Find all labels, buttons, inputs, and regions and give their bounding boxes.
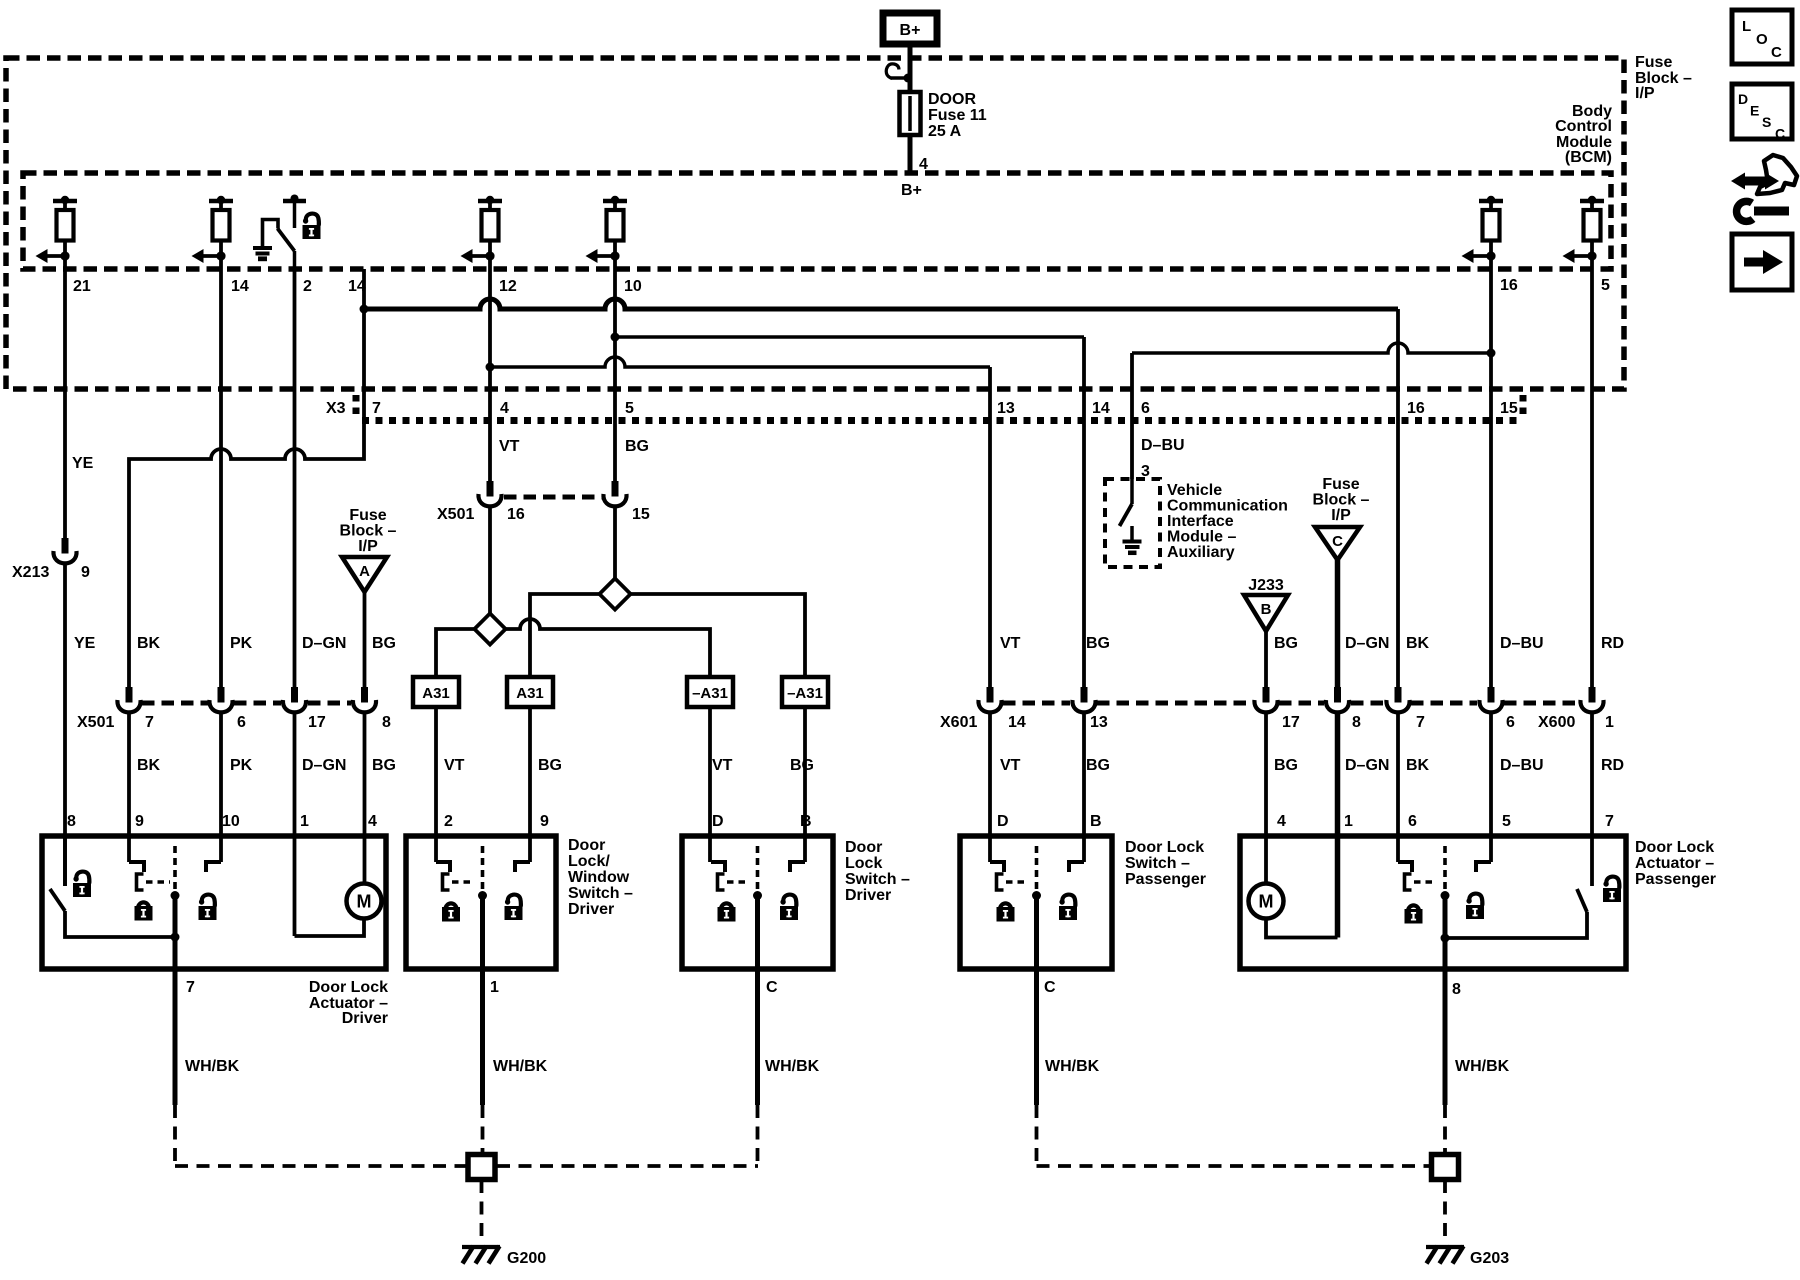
svg-text:BG: BG [790, 757, 814, 774]
svg-text:7: 7 [1605, 813, 1614, 830]
node B+ battery feed box [883, 13, 937, 44]
wire D-GN triangle C to X600 pin 8 (thick feed) [1335, 560, 1341, 687]
svg-text:2: 2 [303, 278, 312, 295]
svg-text:I/P: I/P [1331, 507, 1351, 524]
wire WH/BK window switch pin 1 [480, 973, 485, 1155]
junction node on pin 10 wire at bus 2 [611, 333, 620, 342]
motor M driver actuator [347, 884, 382, 919]
fuse DOOR Fuse 11 25 A [900, 91, 987, 140]
svg-text:C: C [1332, 533, 1343, 550]
svg-text:8: 8 [1452, 981, 1461, 998]
svg-text:C: C [766, 979, 778, 996]
svg-text:C: C [1775, 126, 1785, 142]
svg-text:BG: BG [625, 438, 649, 455]
BCM output driver pin 12 [461, 196, 503, 269]
door lock window switch driver box [406, 836, 556, 969]
terminal hook pin 9 driver actuator [129, 862, 144, 872]
svg-text:10: 10 [222, 813, 240, 830]
terminal hook pin 2 window switch [436, 862, 450, 872]
lock padlock icon window switch [442, 903, 460, 921]
fuse block I/P triangle A label [340, 507, 397, 555]
svg-text:D: D [712, 813, 724, 830]
svg-text:Switch –: Switch – [568, 885, 633, 902]
door lock actuator passenger box [1240, 836, 1626, 969]
unlock padlock icon at switch passenger actuator [1603, 877, 1621, 902]
svg-text:O: O [1756, 31, 1768, 48]
terminal hook pin B lock switch driver [790, 862, 805, 872]
svg-text:RD: RD [1601, 635, 1624, 652]
svg-text:8: 8 [1352, 714, 1361, 731]
dashed wire to ground G203 [1443, 1180, 1447, 1243]
wires X501 lower row to driver actuator box [129, 711, 365, 936]
wire fuse to BCM pin 4 [908, 135, 913, 173]
svg-text:(BCM): (BCM) [1565, 149, 1612, 166]
svg-text:VT: VT [444, 757, 465, 774]
BCM output driver pin 5 [1563, 196, 1605, 269]
svg-text:B: B [1261, 601, 1272, 618]
wire switch return to linkage junction [65, 911, 175, 937]
svg-text:Passenger: Passenger [1125, 871, 1206, 888]
svg-text:1: 1 [300, 813, 309, 830]
terminal hook pin 6 passenger actuator [1398, 862, 1412, 872]
Fuse Block - I/P outer dashed box [6, 58, 1624, 389]
mechanical linkage dashes lock switch driver [727, 880, 749, 884]
svg-text:X213: X213 [12, 564, 49, 581]
svg-text:Lock/: Lock/ [568, 853, 610, 870]
svg-text:S: S [1762, 114, 1771, 130]
BCM output driver pin 21 [36, 196, 78, 269]
wire YE BCM pin 21 down to X213 [63, 269, 67, 538]
svg-text:Switch –: Switch – [845, 871, 910, 888]
wire RD BCM pin 5 down to X600 pin 1 [1590, 269, 1594, 687]
svg-text:WH/BK: WH/BK [1045, 1058, 1100, 1075]
wire WH/BK lock switch driver pin C [755, 973, 760, 1166]
box pin labels bottom row [67, 813, 1614, 830]
mechanical linkage dashes driver actuator [146, 880, 170, 884]
svg-text:BK: BK [1406, 757, 1430, 774]
mechanical linkage dashes lock switch passenger [1006, 880, 1028, 884]
wire PK BCM pin 14 down to X501 pin 6 [219, 269, 223, 687]
net name box -A31 (BG to door lock switch) [782, 677, 828, 707]
motor branch wire pins 1-4 driver actuator [295, 919, 365, 937]
connector X501 pin 8 [353, 687, 376, 712]
label Door Lock Actuator - Passenger [1635, 839, 1716, 888]
connector X600 pin 8 [1326, 687, 1349, 712]
wire BG J233 to X600 pin 17 [1264, 631, 1268, 687]
svg-text:X3: X3 [326, 400, 346, 417]
unlock padlock icon passenger actuator [1466, 894, 1484, 919]
unlock padlock icon 2 driver actuator [199, 895, 217, 920]
wire color labels above X501 [137, 635, 396, 652]
icon DESC box [1732, 84, 1792, 142]
mechanical linkage dashes window switch [452, 880, 474, 884]
wire BG BCM pin 10 down to X501 pin 15 [613, 269, 617, 481]
svg-text:15: 15 [1500, 400, 1518, 417]
wire BG diamond left branch to A31 [530, 594, 600, 677]
wire WH/BK driver actuator pin 7 [173, 973, 178, 1166]
svg-text:BG: BG [1086, 757, 1110, 774]
svg-text:21: 21 [73, 278, 91, 295]
svg-text:1: 1 [1344, 813, 1353, 830]
connector X601 pin 13 [1072, 687, 1095, 712]
svg-text:8: 8 [67, 813, 76, 830]
svg-text:Driver: Driver [342, 1010, 388, 1027]
mechanical linkage dashes passenger actuator [1414, 880, 1437, 884]
ground G203 [1426, 1246, 1464, 1264]
wire VT diamond right branch to -A31, hop over BG branch [505, 619, 710, 677]
BCM internal ground switch at pin 2 [263, 195, 307, 270]
svg-text:Control: Control [1555, 118, 1612, 135]
label Fuse Block - I/P (outer box) [1635, 54, 1692, 102]
svg-text:17: 17 [1282, 714, 1300, 731]
wire D-BU BCM pin 16 down to X600 pin 6 [1489, 269, 1493, 687]
lock actuator bracket lock switch driver [718, 874, 725, 890]
svg-text:D–GN: D–GN [302, 635, 346, 652]
svg-text:WH/BK: WH/BK [493, 1058, 548, 1075]
svg-text:25 A: 25 A [928, 123, 962, 140]
svg-text:X501: X501 [437, 506, 474, 523]
svg-text:WH/BK: WH/BK [765, 1058, 820, 1075]
svg-text:BG: BG [1086, 635, 1110, 652]
BCM output driver pin 14 (first) [192, 196, 234, 269]
connector X600 pin 1 [1580, 687, 1603, 712]
wire VT BCM pin 12 down to X501 pin 16 [488, 269, 492, 481]
svg-text:Door: Door [568, 837, 605, 854]
label Vehicle Communication Interface Module - Auxiliary [1167, 482, 1288, 561]
svg-text:Block –: Block – [1313, 492, 1370, 509]
svg-text:6: 6 [1141, 400, 1150, 417]
svg-text:6: 6 [1506, 714, 1515, 731]
connector X501 pin 15 [603, 481, 626, 506]
svg-text:WH/BK: WH/BK [1455, 1058, 1510, 1075]
svg-text:G203: G203 [1470, 1250, 1509, 1267]
svg-text:15: 15 [632, 506, 650, 523]
splice box at G203 [1432, 1155, 1459, 1180]
svg-text:Passenger: Passenger [1635, 871, 1716, 888]
svg-text:BK: BK [1406, 635, 1430, 652]
svg-text:7: 7 [372, 400, 381, 417]
wire VT diamond left branch to A31 [436, 629, 475, 677]
svg-text:A: A [359, 563, 370, 580]
connector X501 pin 16 [478, 481, 501, 506]
connector X501 lower row dashed line [142, 701, 351, 706]
svg-text:BG: BG [372, 757, 396, 774]
svg-text:Door: Door [845, 839, 882, 856]
svg-text:14: 14 [1008, 714, 1026, 731]
label Door Lock Switch - Driver [845, 839, 910, 904]
svg-text:J233: J233 [1248, 577, 1284, 594]
svg-text:BK: BK [137, 757, 161, 774]
svg-text:D–GN: D–GN [302, 757, 346, 774]
svg-text:Fuse: Fuse [1635, 54, 1672, 71]
wire B+ feed from B+ box to fuse [908, 46, 913, 92]
wire color labels below connectors right side [1000, 757, 1624, 774]
splice pack triangle B (J233) [1244, 595, 1288, 631]
svg-text:E: E [1750, 103, 1759, 119]
svg-text:16: 16 [1407, 400, 1425, 417]
icon forward arrow box [1732, 234, 1792, 290]
connector X601 pin labels [1008, 714, 1108, 731]
svg-text:Fuse: Fuse [349, 507, 386, 524]
net name box A31 (BG to window switch) [507, 677, 553, 707]
svg-text:Fuse: Fuse [1322, 476, 1359, 493]
svg-text:X600: X600 [1538, 714, 1575, 731]
svg-text:10: 10 [624, 278, 642, 295]
svg-text:D–BU: D–BU [1500, 635, 1544, 652]
connector X501 pin 7 [117, 687, 140, 712]
connector X501 lower row labels [77, 714, 391, 731]
svg-text:Door Lock: Door Lock [1635, 839, 1714, 856]
svg-text:BK: BK [137, 635, 161, 652]
door lock switch passenger box [960, 836, 1112, 969]
svg-text:BG: BG [372, 635, 396, 652]
icon LOC box [1732, 10, 1792, 64]
svg-text:G200: G200 [507, 1250, 546, 1267]
connector X600 pin 7 [1386, 687, 1409, 712]
svg-text:L: L [1742, 18, 1751, 35]
svg-text:D–GN: D–GN [1345, 635, 1389, 652]
junction node on pin 16 wire for D-BU tap [1487, 349, 1496, 358]
svg-text:DOOR: DOOR [928, 91, 976, 108]
svg-text:Vehicle: Vehicle [1167, 482, 1222, 499]
svg-text:2: 2 [444, 813, 453, 830]
wire VT bus 3 corner down to X601 pin 14 [988, 367, 992, 687]
ground symbol inside BCM at pin 2 switch [253, 248, 272, 259]
dashed ground bus right [1037, 1164, 1432, 1168]
splice box at G200 [468, 1155, 495, 1180]
svg-text:4: 4 [368, 813, 377, 830]
wire bus 2 from BG wire to corner at x=1084 [615, 335, 1084, 339]
terminal hook pin D lock switch passenger [990, 862, 1004, 872]
svg-text:13: 13 [997, 400, 1015, 417]
svg-text:Driver: Driver [845, 887, 891, 904]
connector X501 pin 17 [283, 687, 306, 712]
svg-text:D: D [997, 813, 1009, 830]
svg-text:8: 8 [382, 714, 391, 731]
svg-text:13: 13 [1090, 714, 1108, 731]
svg-text:Door Lock: Door Lock [1125, 839, 1204, 856]
svg-text:Fuse 11: Fuse 11 [928, 107, 987, 124]
wire BK bus 1 corner down to X600 pin 7 [1396, 309, 1400, 687]
svg-text:16: 16 [507, 506, 525, 523]
BCM output driver pin 10 [586, 196, 628, 269]
splice diamond BG [599, 578, 630, 609]
svg-text:VT: VT [1000, 757, 1021, 774]
svg-text:C: C [1771, 44, 1782, 61]
svg-text:BG: BG [1274, 635, 1298, 652]
terminal hook pin B lock switch passenger [1069, 862, 1084, 872]
svg-text:Interface: Interface [1167, 513, 1234, 530]
wire BK BCM pin 14 down with jog to X501 pin 7, hops over D-GN and PK wires [129, 269, 364, 687]
svg-text:5: 5 [1601, 277, 1610, 294]
wire D-BU corner down to VCIM pin 3 [1130, 353, 1134, 479]
svg-text:1: 1 [490, 979, 499, 996]
wire BG triangle A to X501 pin 8 [363, 592, 367, 687]
svg-text:16: 16 [1500, 277, 1518, 294]
connector X501 upper row labels [437, 506, 650, 523]
unlock padlock icon driver actuator [73, 872, 91, 897]
svg-text:7: 7 [186, 979, 195, 996]
svg-text:–A31: –A31 [787, 685, 823, 702]
connector X3 right end stub [1520, 395, 1527, 419]
svg-text:RD: RD [1601, 757, 1624, 774]
ground inside VCIM [1123, 526, 1142, 553]
svg-text:A31: A31 [516, 685, 544, 702]
switch return wire passenger actuator [1445, 912, 1587, 938]
svg-text:12: 12 [499, 278, 517, 295]
linkage rod lock switch driver [753, 846, 762, 973]
svg-text:BG: BG [538, 757, 562, 774]
svg-text:D–BU: D–BU [1500, 757, 1544, 774]
svg-text:D–BU: D–BU [1141, 437, 1185, 454]
unlock padlock icon inside BCM [303, 214, 321, 239]
wire color labels below A31 boxes [444, 757, 814, 774]
svg-text:4: 4 [1277, 813, 1286, 830]
wires below X601/X600 into boxes [990, 711, 1592, 938]
connector X213 pin 9 [53, 538, 76, 563]
svg-text:Door Lock: Door Lock [309, 979, 388, 996]
svg-text:7: 7 [1416, 714, 1425, 731]
lock actuator bracket passenger actuator [1405, 874, 1412, 890]
connector X601 pin 14 [978, 687, 1001, 712]
net name box A31 (VT to window switch) [413, 677, 459, 707]
connector X600 pin 17 [1254, 687, 1277, 712]
svg-text:BG: BG [1274, 757, 1298, 774]
wire bus 1 (B+ rail) from pin 14 to right corner, hops over VT and BG wires [364, 299, 1398, 309]
connector X501 upper row dashed link [504, 495, 602, 500]
svg-text:X501: X501 [77, 714, 114, 731]
svg-text:X601: X601 [940, 714, 977, 731]
svg-text:C: C [1044, 979, 1056, 996]
wire WH/BK lock switch passenger pin C [1034, 973, 1039, 1166]
unlock padlock icon lock switch passenger [1059, 895, 1077, 920]
icon x-ref arrows and wrench [1731, 155, 1797, 221]
wire color labels below X501 [137, 757, 396, 774]
lock padlock icon passenger actuator [1405, 905, 1423, 923]
linkage rod window switch [478, 846, 487, 973]
svg-text:D: D [1738, 91, 1748, 107]
wire BG diamond right branch to -A31 [630, 594, 805, 677]
svg-text:WH/BK: WH/BK [185, 1058, 240, 1075]
svg-text:B+: B+ [900, 22, 921, 39]
door lock switch driver box [682, 836, 833, 969]
svg-text:Switch –: Switch – [1125, 855, 1190, 872]
label Door Lock/Window Switch - Driver [568, 837, 633, 918]
svg-text:B: B [1090, 813, 1102, 830]
svg-text:Actuator –: Actuator – [1635, 855, 1714, 872]
svg-text:4: 4 [500, 400, 509, 417]
svg-text:Lock: Lock [845, 855, 882, 872]
switch inside VCIM [1120, 479, 1133, 526]
dashed wire to ground G200 [480, 1180, 484, 1243]
svg-text:–A31: –A31 [692, 685, 728, 702]
connector X600 pin labels [1282, 714, 1614, 731]
svg-text:5: 5 [1502, 813, 1511, 830]
svg-text:14: 14 [231, 278, 249, 295]
unlock padlock icon window switch [505, 895, 523, 920]
svg-text:Module –: Module – [1167, 529, 1236, 546]
svg-text:Window: Window [568, 869, 630, 886]
svg-text:I/P: I/P [358, 538, 378, 555]
label Body Control Module (BCM) [1555, 103, 1612, 166]
connector row dashed line X601 to X600 [1003, 701, 1578, 706]
connector X600 pin 6 [1479, 687, 1502, 712]
connector X3 left end stub [353, 395, 360, 419]
X3 pin labels [372, 400, 1518, 417]
wire BG X501 pin 15 to splice diamond [613, 505, 617, 579]
motor M passenger actuator [1249, 884, 1284, 919]
wire bus 3 from VT wire to corner at x=990, hop over BG wire [490, 357, 990, 367]
linkage rod driver actuator [171, 846, 180, 973]
switch blade pin 7 passenger actuator [1577, 889, 1587, 912]
svg-text:17: 17 [308, 714, 326, 731]
fuse block I/P triangle A [342, 557, 387, 592]
Vehicle Communication Interface Module dashed box [1105, 479, 1160, 567]
label Door Lock Switch - Passenger [1125, 839, 1206, 888]
wires A31 boxes down into switch boxes [436, 707, 805, 862]
terminal hook pin 10 driver actuator [206, 862, 221, 872]
wire D-BU tap from pin 16 wire to VCIM corner, hop over BK wire [1132, 343, 1491, 353]
wire D-GN BCM pin 2 down to X501 pin 17 [293, 269, 297, 687]
lock padlock icon driver actuator [135, 902, 153, 920]
door lock actuator driver box [42, 836, 386, 969]
lock actuator bracket window switch [443, 874, 450, 890]
dashed ground bus left [175, 1164, 758, 1168]
BCM pin number labels [73, 277, 1610, 295]
lock padlock icon lock switch driver [718, 903, 736, 921]
svg-text:YE: YE [72, 455, 94, 472]
svg-text:VT: VT [712, 757, 733, 774]
ground G200 [462, 1246, 500, 1264]
lock actuator bracket lock switch passenger [997, 874, 1004, 890]
svg-text:9: 9 [135, 813, 144, 830]
svg-text:B: B [800, 813, 812, 830]
svg-text:1: 1 [1605, 714, 1614, 731]
junction node on pin 12 wire at bus 3 [486, 363, 495, 372]
svg-text:Auxiliary: Auxiliary [1167, 544, 1235, 561]
svg-text:Driver: Driver [568, 901, 614, 918]
BCM output driver pin 16 [1462, 196, 1504, 269]
terminal hook pin 9 window switch [515, 862, 530, 872]
wire BG bus 2 corner down to X601 pin 13 [1082, 337, 1086, 687]
junction node on pin 14 wire at bus 1 [360, 305, 369, 314]
svg-text:9: 9 [540, 813, 549, 830]
connector X501 pin 6 [209, 687, 232, 712]
svg-text:Block –: Block – [340, 523, 397, 540]
svg-text:5: 5 [625, 400, 634, 417]
svg-text:A31: A31 [422, 685, 450, 702]
linkage rod passenger actuator [1441, 846, 1450, 973]
svg-text:VT: VT [1000, 635, 1021, 652]
svg-text:9: 9 [81, 564, 90, 581]
unlock padlock icon lock switch driver [780, 895, 798, 920]
svg-text:Communication: Communication [1167, 498, 1288, 515]
wire WH/BK passenger actuator pin 8 [1443, 973, 1448, 1155]
svg-text:6: 6 [1408, 813, 1417, 830]
svg-text:VT: VT [499, 438, 520, 455]
motor branch wire pins 4-1 passenger actuator [1266, 919, 1338, 938]
lock padlock icon lock switch passenger [997, 903, 1015, 921]
label Door Lock Actuator - Driver [309, 979, 388, 1027]
svg-text:PK: PK [230, 757, 253, 774]
svg-text:14: 14 [1092, 400, 1110, 417]
svg-text:6: 6 [237, 714, 246, 731]
wire VT X501 pin 16 to splice diamond [488, 505, 492, 614]
svg-text:7: 7 [145, 714, 154, 731]
fuse block I/P triangle C [1315, 527, 1360, 560]
lock actuator bracket driver [137, 874, 144, 890]
svg-text:B+: B+ [901, 182, 922, 199]
